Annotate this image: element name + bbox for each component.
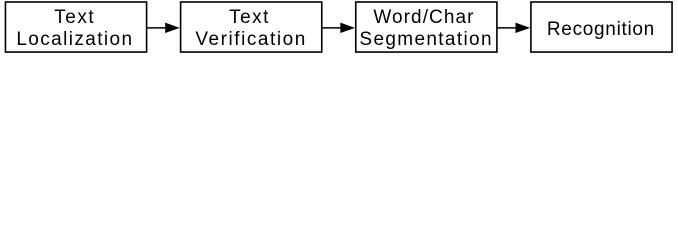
svg-text:Text: Text [54,7,95,28]
box: Recognition [531,2,672,52]
arrow 1 [147,23,180,33]
svg-text:Recognition: Recognition [547,19,655,40]
svg-text:Word/Char: Word/Char [373,7,474,28]
box: Text Localization [5,2,146,52]
box: Text Verification [181,2,322,52]
svg-text:Text: Text [229,7,270,28]
svg-text:Segmentation: Segmentation [359,29,492,50]
svg-text:Localization: Localization [16,29,133,50]
svg-text:Verification: Verification [195,29,307,50]
arrow 2 [322,23,355,33]
arrow 3 [497,23,530,33]
box: Word/Char Segmentation [356,2,497,52]
flowchart: text recognition pipeline [0,0,678,58]
